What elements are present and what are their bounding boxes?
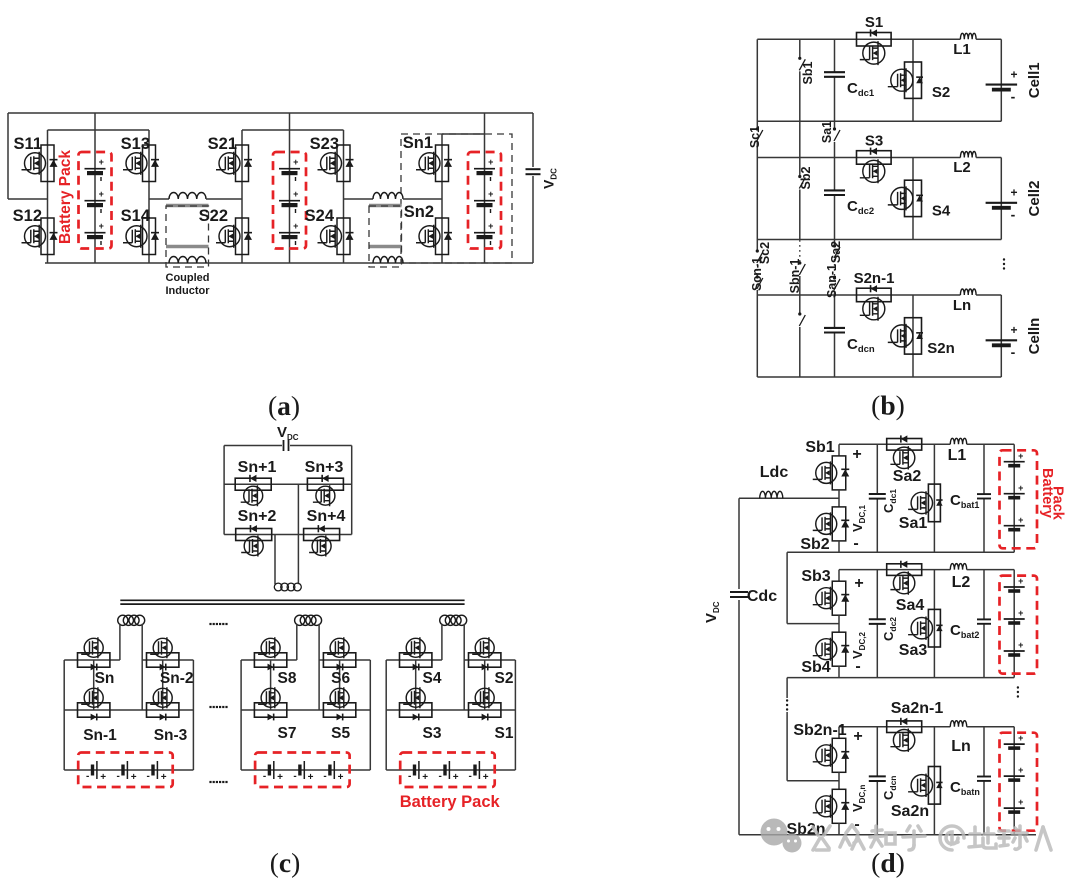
svg-text:-: - — [293, 771, 296, 782]
svg-text:+: + — [453, 772, 459, 783]
svg-text:Sn1: Sn1 — [403, 134, 433, 152]
svg-text:+: + — [99, 221, 104, 231]
svg-text:+: + — [1018, 797, 1023, 807]
svg-text:+: + — [1018, 576, 1023, 586]
svg-text:+: + — [293, 221, 298, 231]
svg-text:-: - — [1011, 207, 1016, 223]
svg-text:-: - — [408, 771, 411, 782]
svg-text:+: + — [1010, 67, 1017, 81]
svg-text:S5: S5 — [331, 725, 350, 742]
svg-text:S2n: S2n — [927, 340, 955, 357]
svg-text:+: + — [277, 772, 283, 783]
svg-text:L2: L2 — [952, 574, 971, 591]
svg-text:-: - — [1011, 344, 1016, 360]
svg-text:S7: S7 — [278, 725, 297, 742]
svg-text:+: + — [293, 189, 298, 199]
svg-text:Ln: Ln — [953, 297, 971, 314]
svg-text:+: + — [338, 772, 344, 783]
svg-text:Sa2n: Sa2n — [891, 803, 929, 820]
svg-text:+: + — [854, 575, 863, 592]
svg-text:+: + — [100, 772, 106, 783]
svg-text:+: + — [1018, 483, 1023, 493]
svg-text:+: + — [99, 157, 104, 167]
svg-text:Sn-3: Sn-3 — [154, 727, 188, 744]
svg-text:Battery Pack: Battery Pack — [57, 150, 74, 244]
svg-text:Sn+3: Sn+3 — [305, 459, 344, 476]
svg-text:S13: S13 — [121, 135, 150, 153]
svg-text:S4: S4 — [932, 203, 951, 220]
svg-text:Sa1: Sa1 — [820, 121, 834, 143]
svg-text:S3: S3 — [423, 725, 442, 742]
svg-text:S2: S2 — [495, 670, 514, 687]
svg-text:Sb4: Sb4 — [801, 659, 830, 676]
svg-text:L1: L1 — [953, 41, 971, 58]
svg-text:(d): (d) — [871, 847, 905, 878]
svg-text:+: + — [293, 157, 298, 167]
svg-text:Sb1: Sb1 — [805, 439, 834, 456]
svg-text:Cell1: Cell1 — [1026, 62, 1043, 98]
svg-text:L2: L2 — [953, 159, 971, 176]
svg-text:Sa2n-1: Sa2n-1 — [891, 700, 944, 717]
svg-text:S1: S1 — [495, 725, 514, 742]
svg-text:Sb2n-1: Sb2n-1 — [793, 722, 846, 739]
svg-text:-: - — [439, 771, 442, 782]
svg-text:Sbn-1: Sbn-1 — [788, 259, 802, 294]
svg-text:L1: L1 — [948, 447, 967, 464]
svg-text:Battery Pack: Battery Pack — [400, 793, 501, 811]
svg-text:Sn+2: Sn+2 — [238, 508, 277, 525]
svg-text:Sc1: Sc1 — [748, 126, 762, 148]
svg-text:Sn+4: Sn+4 — [307, 508, 346, 525]
svg-text:S23: S23 — [310, 135, 339, 153]
svg-text:Sa2: Sa2 — [893, 468, 922, 485]
svg-text:+: + — [161, 772, 167, 783]
svg-text:San-1: San-1 — [825, 264, 839, 298]
svg-text:+: + — [1010, 186, 1017, 200]
svg-text:S3: S3 — [865, 133, 883, 150]
svg-text:Cell2: Cell2 — [1026, 181, 1043, 217]
svg-text:+: + — [422, 772, 428, 783]
svg-text:+: + — [1018, 608, 1023, 618]
svg-text:-: - — [117, 771, 120, 782]
svg-text:+: + — [1018, 640, 1023, 650]
svg-text:-: - — [855, 658, 860, 675]
svg-text:Sn+1: Sn+1 — [238, 459, 277, 476]
svg-text:-: - — [263, 771, 266, 782]
svg-text:Sb2: Sb2 — [799, 166, 813, 189]
svg-text:Sa1: Sa1 — [899, 515, 928, 532]
svg-text:S8: S8 — [278, 670, 297, 687]
svg-text:Sb3: Sb3 — [801, 568, 830, 585]
svg-text:+: + — [1018, 515, 1023, 525]
svg-text:Sn2: Sn2 — [404, 203, 434, 221]
svg-text:S24: S24 — [305, 207, 335, 225]
svg-text:+: + — [1018, 451, 1023, 461]
svg-text:Coupled: Coupled — [166, 272, 210, 284]
svg-text:+: + — [131, 772, 137, 783]
svg-text:Sa4: Sa4 — [896, 597, 925, 614]
svg-text:+: + — [308, 772, 314, 783]
svg-text:+: + — [1018, 733, 1023, 743]
svg-text:Sb2: Sb2 — [800, 536, 829, 553]
svg-text:+: + — [852, 446, 861, 463]
svg-text:S22: S22 — [199, 207, 228, 225]
svg-text:-: - — [1011, 88, 1016, 104]
svg-text:Pack: Pack — [1050, 486, 1066, 521]
svg-text:+: + — [99, 189, 104, 199]
svg-text:(b): (b) — [871, 390, 905, 421]
svg-text:Sn-2: Sn-2 — [160, 670, 194, 687]
svg-text:Cdc: Cdc — [747, 588, 777, 605]
svg-text:+: + — [483, 772, 489, 783]
svg-text:+: + — [853, 728, 862, 745]
svg-text:S2: S2 — [932, 84, 950, 101]
svg-text:S1: S1 — [865, 14, 883, 31]
svg-text:Celln: Celln — [1026, 318, 1043, 355]
svg-text:+: + — [1018, 765, 1023, 775]
svg-text:S12: S12 — [13, 207, 42, 225]
svg-text:S14: S14 — [121, 207, 151, 225]
svg-text:Sb1: Sb1 — [801, 61, 815, 84]
svg-text:Sn-1: Sn-1 — [83, 727, 117, 744]
svg-text:Sa2: Sa2 — [829, 241, 843, 263]
svg-text:-: - — [86, 771, 89, 782]
svg-text:-: - — [323, 771, 326, 782]
svg-text:Sa3: Sa3 — [899, 642, 928, 659]
svg-text:S4: S4 — [423, 670, 442, 687]
svg-text:Ln: Ln — [951, 738, 971, 755]
svg-text:Sn: Sn — [95, 670, 115, 687]
svg-text:+: + — [1010, 323, 1017, 337]
svg-text:Inductor: Inductor — [166, 285, 211, 297]
svg-text:-: - — [853, 535, 858, 552]
svg-text:+: + — [488, 221, 493, 231]
svg-text:(c): (c) — [270, 847, 301, 878]
svg-text:S2n-1: S2n-1 — [854, 270, 895, 287]
svg-text:S21: S21 — [208, 135, 237, 153]
svg-text:+: + — [488, 157, 493, 167]
svg-text:(a): (a) — [268, 390, 300, 421]
svg-text:-: - — [147, 771, 150, 782]
svg-text:-: - — [469, 771, 472, 782]
svg-text:Sc2: Sc2 — [758, 242, 772, 264]
svg-text:Ldc: Ldc — [760, 464, 789, 481]
svg-text:S11: S11 — [14, 135, 42, 153]
svg-text:+: + — [488, 189, 493, 199]
svg-text:S6: S6 — [331, 670, 350, 687]
